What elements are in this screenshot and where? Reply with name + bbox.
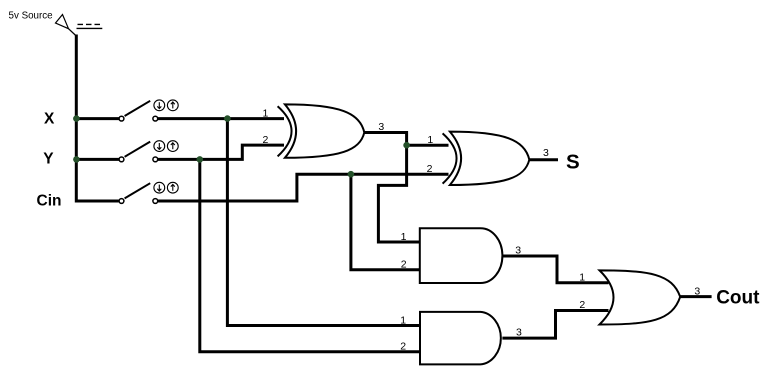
xor gate U2 (sum, output S) bbox=[443, 132, 530, 185]
wire power rail bbox=[76, 35, 119, 202]
switch S2 (Y row) bbox=[119, 141, 178, 162]
wire Cin branch down to AND1 pin2 bbox=[351, 174, 420, 270]
svg-text:2: 2 bbox=[427, 163, 433, 175]
switch S3 (Cin row) bbox=[119, 182, 178, 203]
wire Y branch down to AND2 pin2 bbox=[200, 159, 421, 351]
svg-text:Y: Y bbox=[43, 151, 54, 168]
wire AND2 output to OR pin2 bbox=[502, 311, 608, 339]
svg-text:5v Source: 5v Source bbox=[9, 11, 54, 22]
svg-text:Cout: Cout bbox=[716, 288, 760, 309]
svg-text:1: 1 bbox=[262, 107, 268, 119]
wire OR output to Cout bbox=[679, 295, 712, 298]
svg-text:3: 3 bbox=[694, 285, 700, 297]
svg-text:3: 3 bbox=[378, 121, 384, 133]
wire AND1 output to OR pin1 bbox=[502, 256, 608, 283]
wire Y row right with step up to XOR1 pin2 bbox=[158, 145, 284, 159]
wire XOR1 output branch to XOR2 pin1 bbox=[407, 144, 449, 147]
svg-text:1: 1 bbox=[427, 134, 433, 146]
junction dot X at rail bbox=[73, 115, 80, 122]
junction dot XOR1 out branch bbox=[403, 142, 410, 149]
wire Y row left bbox=[75, 158, 119, 161]
wire XOR1 output to AND1 pin1 bbox=[363, 133, 420, 243]
svg-text:Cin: Cin bbox=[37, 193, 62, 210]
junction dot Y branch bbox=[197, 156, 204, 163]
wire XOR2 output to S bbox=[528, 158, 558, 161]
xor gate U1 (X xor Y) bbox=[278, 104, 365, 157]
5v source symbol V1 bbox=[56, 15, 103, 37]
junction dot Cin branch bbox=[348, 171, 355, 178]
svg-text:2: 2 bbox=[401, 259, 407, 271]
svg-text:2: 2 bbox=[400, 340, 406, 352]
and gate U4 (bottom) bbox=[420, 312, 501, 365]
and gate U3 (top) bbox=[420, 228, 503, 283]
wire Cin row right with step up to XOR2 pin2 bbox=[158, 174, 449, 201]
svg-text:X: X bbox=[44, 111, 55, 128]
svg-text:1: 1 bbox=[401, 231, 407, 243]
wire X row right to XOR1 pin1 bbox=[158, 117, 284, 120]
svg-text:2: 2 bbox=[262, 134, 268, 146]
svg-text:3: 3 bbox=[515, 244, 521, 256]
svg-text:3: 3 bbox=[543, 147, 549, 159]
svg-text:3: 3 bbox=[516, 326, 522, 338]
switch S1 (X row) bbox=[119, 100, 178, 121]
svg-text:1: 1 bbox=[579, 271, 585, 283]
junction dot X branch bbox=[224, 115, 231, 122]
wire X row left bbox=[75, 117, 119, 120]
wire X branch down to AND2 pin1 bbox=[227, 119, 420, 326]
svg-text:2: 2 bbox=[579, 299, 585, 311]
junction dot Y at rail bbox=[73, 156, 80, 163]
or gate U5 (Cout) bbox=[600, 270, 681, 324]
svg-text:1: 1 bbox=[400, 314, 406, 326]
svg-text:S: S bbox=[566, 150, 580, 173]
